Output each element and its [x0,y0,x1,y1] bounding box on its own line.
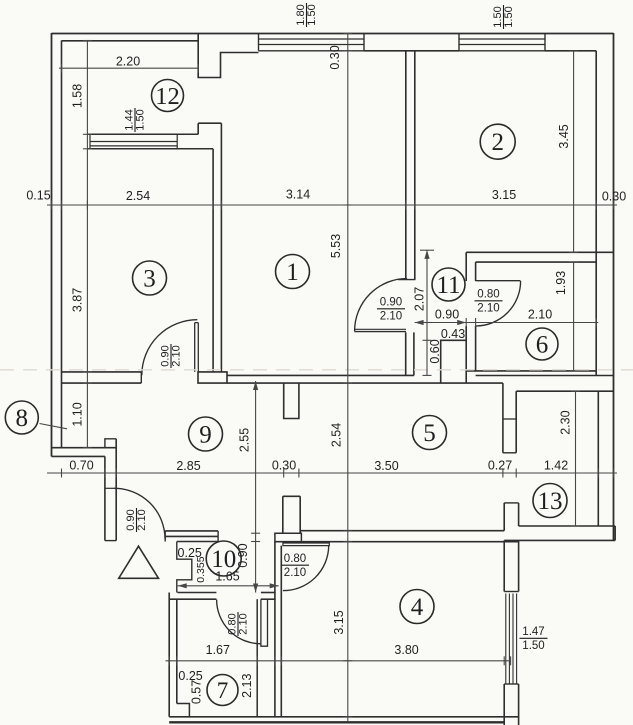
dimension line 2.55 / 0.90 (hall 9, room 10) [255,381,257,593]
svg-text:6: 6 [536,332,549,359]
svg-text:2.85: 2.85 [176,459,200,473]
dim label 0.90/2.10 door D3 [160,344,183,368]
svg-text:2.10: 2.10 [238,613,250,634]
svg-text:2.54: 2.54 [330,423,344,447]
svg-text:11: 11 [436,272,460,299]
svg-text:2.10: 2.10 [477,303,499,315]
dim label 1.47/1.50 window W4 [520,626,548,652]
wall: room 4 right wall lower [503,684,505,725]
svg-text:2.10: 2.10 [528,308,552,322]
wall: end cap at room 3 door jamb [198,372,227,383]
svg-text:3.87: 3.87 [71,288,85,312]
wall: left exterior outer edge [51,33,53,457]
wall cap above room 10 [275,533,302,542]
dim label 1.50/1.50 window W2 [492,5,515,29]
dimension line 1.65 (room 10) [178,585,279,587]
dimension line x=87 (1.58 / 3.87 / 1.10) [86,41,88,449]
svg-text:0.27: 0.27 [488,459,512,473]
room label 3 [133,261,167,295]
dimension line 0.90 / 2.10 (hall 11, room 6) [415,322,599,324]
window W3 1.44/1.50 between balcony 12 and room 3 [88,133,199,135]
svg-text:1.93: 1.93 [554,271,568,295]
faint horizontal scan artifact [0,369,633,371]
room label 9 [189,417,223,451]
wall: room 6 left wall below door [465,326,467,383]
svg-text:0.90: 0.90 [380,297,402,309]
svg-text:3.14: 3.14 [286,188,310,202]
svg-text:1.50: 1.50 [522,640,544,652]
wall: entry left wall strip [104,456,106,540]
dimension line 2.20 (balcony top) [59,67,198,69]
dim label 0.80/2.10 door D4 [281,553,309,579]
svg-text:0.30: 0.30 [602,190,626,204]
wall: pillar right of balcony 12 [198,34,258,78]
wall: hall 9 bottom wall (room 5 top) [227,374,414,376]
wall: room 3 bottom wall [62,371,142,373]
wall: niche 8 bottom wall [52,447,117,449]
wall: right exterior outer edge [613,33,615,541]
svg-text:2.30: 2.30 [558,410,572,434]
wall: room 13 top wall [502,383,504,419]
wall between corridor and room 4 [274,542,276,717]
svg-text:12: 12 [155,83,180,110]
svg-text:0.80: 0.80 [477,289,499,301]
room label 7 [207,675,238,706]
svg-text:0.80: 0.80 [284,553,306,565]
door D4 corridor swing arc [283,546,329,591]
leader line from circle 8 [40,424,68,429]
door D7 room 7 leaf [261,599,268,646]
wall: top inner edge between windows [364,50,459,52]
svg-text:2.10: 2.10 [284,567,306,579]
svg-text:2.55: 2.55 [238,428,252,452]
dimension line 1.93 (room 6) [573,262,575,371]
wall: room 7 left pilaster [177,704,190,717]
svg-text:4: 4 [411,594,424,621]
room label 5 [413,416,447,450]
svg-text:1.50: 1.50 [306,4,318,25]
wall stub between hall 9 and room 5 (top) [284,383,299,418]
room label 1 [276,255,310,289]
svg-text:0.43: 0.43 [441,327,465,341]
room label 6 [526,328,558,360]
wall: room 7 left wall [168,593,170,717]
dimension line row y=660.8 (1.67 / 3.80) [166,660,511,662]
svg-text:0.70: 0.70 [69,459,93,473]
svg-text:3.80: 3.80 [394,643,418,657]
svg-text:2: 2 [491,129,504,156]
wall: room 2 bottom wall upper line [466,251,613,253]
svg-text:3.15: 3.15 [332,610,346,634]
wall: room 6 left wall above door [465,252,467,281]
dimension line x=347.8 (0.30 / 5.53 / 2.54 / 3.15) [347,34,349,723]
room label 13 [533,484,567,518]
svg-text:0.57: 0.57 [190,680,204,704]
room label 11 [432,268,465,301]
door D6 room 6 leaf [476,280,521,282]
dim label 0.90/2.10 door D9 [125,508,148,532]
room label 2 [480,124,515,159]
door D9 entry swing arc [114,488,165,539]
door D1 room 1 swing arc [355,279,408,332]
wall: room 4 bottom wall [169,716,518,718]
svg-text:2.13: 2.13 [240,673,254,697]
room label 10 [206,541,241,576]
window W2 1.50/1.50 top wall [459,34,545,51]
svg-text:5.53: 5.53 [329,234,343,258]
svg-text:8: 8 [16,405,29,432]
svg-text:0.15: 0.15 [26,189,50,203]
room label 12 [152,80,184,112]
wall: right exterior inner edge upper [595,51,597,376]
wall between room 3 and room 1 (right line) [220,123,222,372]
svg-text:10: 10 [211,546,236,573]
svg-text:3.45: 3.45 [557,124,571,148]
wall: room 5 / 13 wall lower piece [503,503,505,531]
dim label 0.80/2.10 door D6 [475,289,503,315]
wall stub between doors (hall 11) [406,332,414,375]
svg-text:2.54: 2.54 [126,189,150,203]
stairs triangle symbol [119,546,159,578]
wall strip between hall 9 and room 5 (bottom) [283,496,300,533]
dim label 0.80/2.10 door D7 [227,612,250,636]
door D7 room 7 swing arc [217,600,261,644]
svg-text:3.15: 3.15 [492,188,516,202]
wall: room 5 / 13 wall upper piece [515,391,517,453]
wall: room 4 right wall upper [503,540,505,591]
svg-text:0.355: 0.355 [195,556,207,582]
dimension line 2.07 / 0.60 (hall 11) [426,250,428,376]
svg-text:3: 3 [143,266,156,293]
wall: room 10 left niche [177,542,192,593]
door D9 leaf tip mark [105,487,116,489]
wall: step above entry wall [105,439,116,448]
room label 4 [400,590,434,624]
svg-text:13: 13 [538,488,563,515]
door D3 room 3 leaf [195,323,199,372]
wall: balcony 12 top inner edge [62,40,199,42]
wall: room 10 top wall [165,530,218,532]
wall: left exterior inner edge [61,41,63,449]
door D1 room 1 leaf [354,331,406,333]
svg-text:2.10: 2.10 [171,345,183,366]
wall: room 4 top wall [301,530,504,532]
dim label 1.44/1.50 window W3 [124,108,147,132]
window W1 1.80/1.50 top wall [259,34,365,51]
svg-text:3.50: 3.50 [374,459,398,473]
svg-text:1.10: 1.10 [71,402,85,426]
dimension line row y=473 (0.70 / 2.85 / 0.30 / 3.50 / 0.27 / 1.42) [47,472,617,474]
svg-text:0.30: 0.30 [272,459,296,473]
svg-text:1.67: 1.67 [206,643,230,657]
wall between room 3 and room 1 (left line) [212,149,214,372]
window W4 1.47/1.50 room 4 right wall [504,591,518,593]
wall: building top exterior outer edge [52,33,614,35]
svg-text:2.07: 2.07 [413,287,427,311]
svg-text:0.60: 0.60 [428,339,442,363]
svg-text:7: 7 [217,678,229,703]
wall: room 7 right wall [256,599,258,717]
svg-text:1.42: 1.42 [544,459,568,473]
wall: end cap of wall between rooms 1 and 2 [398,279,415,281]
door D6 room 6 swing arc [476,281,521,326]
dimension line 2.30 (room 13) [575,391,577,526]
wall: step at balcony 12 SE corner [198,123,221,134]
wall: room 13 bottom wall [519,525,616,527]
wall: right inner edge room 13 [597,391,599,526]
door D3 room 3 swing arc [142,320,198,376]
svg-text:0.90: 0.90 [435,308,459,322]
wall: shaft step left of room 6 [441,340,467,383]
svg-text:9: 9 [199,422,212,449]
dimension line row y=205 (0.15 / 2.54 / 3.14 / 3.15 / 0.30) [47,204,617,206]
svg-text:1.50: 1.50 [135,109,147,130]
wall between rooms 1 and 2 [405,51,407,280]
svg-text:2.10: 2.10 [380,311,402,323]
svg-text:1.58: 1.58 [71,84,85,108]
dim label 0.90/2.10 door D1 [377,297,405,323]
room label 8 [5,401,38,434]
door D4 corridor leaf [283,543,329,546]
svg-text:2.20: 2.20 [116,55,140,69]
svg-text:2.10: 2.10 [136,509,148,530]
dim label 1.80/1.50 window W1 [295,3,318,27]
svg-text:5: 5 [423,420,436,447]
dimension line 3.45 (room 2) [573,51,575,252]
svg-text:1.47: 1.47 [522,626,544,638]
svg-text:0.30: 0.30 [328,45,342,69]
wall: room 6 bottom wall [466,370,596,372]
svg-text:1: 1 [286,259,299,286]
svg-text:1.50: 1.50 [503,6,515,27]
wall: top inner edge right of window 2 [545,50,596,52]
wall: room 7 top wall [178,592,217,594]
wall: room 6 top inner line [476,261,597,263]
